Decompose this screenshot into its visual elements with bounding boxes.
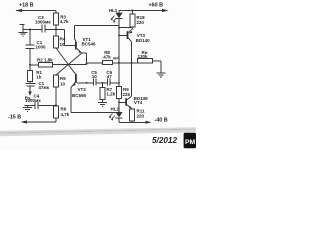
LED HL2 triangle	[115, 112, 122, 117]
transistor VT1 bar	[75, 42, 77, 50]
junction R18 bottom tie	[118, 27, 120, 29]
main spine	[118, 26, 120, 113]
wire VT1 base tap	[65, 29, 76, 45]
svg-text:47: 47	[107, 74, 113, 79]
junction C1 top	[29, 29, 31, 31]
svg-text:4,7k: 4,7k	[61, 112, 70, 117]
resistor R2	[39, 62, 53, 67]
svg-text:-40 В: -40 В	[155, 118, 168, 124]
resistor R9	[117, 87, 122, 99]
svg-text:R2 1,8k: R2 1,8k	[37, 57, 53, 62]
wire R5 to C4 row	[55, 87, 57, 106]
HL1 light arrows	[111, 16, 116, 22]
page edge gray band	[0, 127, 196, 136]
capacitor C5	[93, 79, 96, 86]
HL2 arrow tips	[109, 116, 111, 119]
svg-text:+18 В: +18 В	[19, 3, 34, 9]
transistor VT3 base wire	[119, 34, 127, 36]
wire R3 bottom	[55, 25, 57, 29]
svg-text:220: 220	[137, 114, 145, 119]
svg-text:HL1: HL1	[109, 8, 118, 13]
junction C4 wire to R6	[55, 104, 57, 106]
svg-text:+60 В: +60 В	[149, 3, 164, 9]
capacitor C2 input	[25, 82, 35, 93]
wire VT2 base row	[77, 82, 108, 84]
capacitor C4	[25, 102, 57, 109]
junction C1 bottom / R2 wire	[29, 64, 31, 66]
junction VT4 base tap	[118, 101, 120, 103]
wire cross diagonal D2	[56, 53, 82, 75]
svg-text:РМ: РМ	[185, 139, 195, 146]
junction VT2 emitter wire to spine	[118, 111, 120, 113]
transistor VT4 emitter arrow	[129, 106, 132, 109]
svg-text:BC546: BC546	[82, 41, 97, 46]
arrowhead +60V	[162, 9, 169, 12]
svg-text:VT4: VT4	[134, 100, 143, 105]
transistor VT4 base wire	[119, 101, 125, 103]
resistor R3	[54, 13, 59, 25]
transistor VT2 emitter arrow	[72, 83, 75, 86]
wire +60V rail	[119, 10, 163, 12]
transistor VT4 bar	[125, 98, 127, 105]
ground top-left	[19, 24, 28, 36]
wire ground row	[23, 28, 65, 30]
ground C4	[23, 105, 32, 111]
svg-text:220: 220	[136, 20, 144, 25]
transistor VT3 collector line	[131, 42, 133, 63]
svg-text:1000мк: 1000мк	[25, 98, 41, 103]
LED HL1 stem	[115, 11, 122, 26]
wire R2 row	[30, 63, 87, 65]
HL2 light arrows	[109, 113, 114, 119]
resistor R11	[130, 109, 135, 121]
junction meter node left	[118, 62, 120, 64]
svg-text:4,7k: 4,7k	[60, 19, 69, 24]
svg-text:1k: 1k	[36, 74, 42, 79]
transistor VT4 symbol	[127, 96, 132, 99]
ground R10	[157, 73, 166, 77]
transistor VT1 symbol	[75, 39, 77, 42]
transistor VT1 emitter arrow	[79, 49, 82, 53]
logo РЛ	[184, 133, 196, 149]
svg-text:R4: R4	[60, 36, 66, 41]
junction R7 tap	[102, 82, 104, 84]
svg-text:10: 10	[60, 81, 66, 86]
junction VT3 base tap	[118, 34, 120, 36]
transistor VT2 symbol	[75, 73, 77, 75]
junction C6 to spine	[118, 82, 120, 84]
ground R7	[98, 100, 107, 107]
junction VT1 emitter node	[86, 63, 88, 65]
svg-text:VT2: VT2	[78, 87, 87, 92]
resistor R8	[103, 61, 113, 65]
svg-text:10: 10	[60, 42, 66, 47]
wire -15V row	[26, 118, 56, 122]
svg-text:47мк: 47мк	[38, 85, 49, 90]
wire VT1 collector top	[75, 26, 120, 39]
resistor R18	[131, 11, 133, 15]
svg-text:1,2k: 1,2k	[106, 92, 115, 97]
LED HL1 triangle	[115, 13, 122, 19]
transistor VT2 bar	[75, 74, 77, 83]
transistor VT3 emitter arrow	[129, 31, 132, 34]
arrowhead -40V	[146, 121, 152, 124]
resistor R10 load	[138, 59, 153, 63]
junction R3 bottom node	[55, 28, 57, 30]
transistor VT4 collector line	[131, 63, 133, 96]
wire R18 tie	[119, 27, 132, 29]
svg-text:-15 В: -15 В	[8, 114, 21, 120]
svg-text:22k: 22k	[123, 92, 131, 97]
svg-text:130k: 130k	[138, 54, 149, 59]
junction VT2 base wire left	[86, 82, 88, 84]
svg-text:1000: 1000	[36, 44, 47, 49]
resistor R5	[54, 75, 59, 87]
resistor R6	[54, 106, 59, 118]
resistor R7	[102, 83, 104, 88]
wire cross diagonal D1	[56, 48, 76, 74]
svg-text:1000мк: 1000мк	[35, 19, 51, 24]
wire VT2 emitter down and across	[71, 88, 119, 113]
arrowhead +18V	[16, 9, 23, 12]
wire R8 row	[87, 62, 103, 64]
svg-text:5/2012: 5/2012	[152, 136, 177, 145]
svg-text:BD140: BD140	[136, 38, 151, 43]
svg-text:мА: мА	[113, 56, 120, 61]
wire VT1 emitter	[82, 53, 87, 64]
resistor R4	[55, 29, 57, 36]
HL1 arrow tips	[111, 18, 113, 21]
wire +18V rail	[16, 11, 56, 14]
capacitor C6	[108, 79, 119, 86]
svg-text:R5: R5	[60, 76, 66, 81]
junction meter node right	[131, 62, 133, 64]
svg-text:47k: 47k	[103, 54, 111, 59]
capacitor C1	[26, 30, 35, 65]
wire -40V row	[119, 121, 146, 123]
junction R18 top rail	[131, 10, 133, 12]
arrowhead input	[28, 92, 32, 96]
transistor VT3 bar	[127, 31, 129, 39]
capacitor C3	[42, 25, 45, 33]
LED HL2 stem	[115, 118, 122, 123]
svg-text:BC556: BC556	[72, 93, 87, 98]
svg-text:10: 10	[92, 74, 98, 79]
svg-text:HL2: HL2	[111, 107, 120, 112]
resistor R1	[29, 65, 31, 71]
arrowhead -15V	[21, 120, 28, 123]
transistor VT3 symbol	[128, 28, 132, 33]
